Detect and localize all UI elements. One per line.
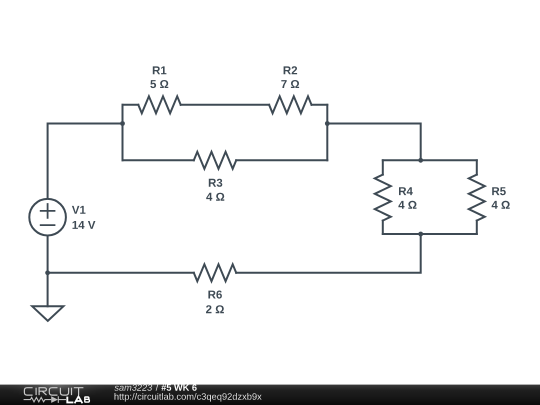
wire between R1 and R2 (181, 104, 269, 106)
CircuitLab logo diode symbol (51, 396, 58, 403)
resistor R2 (269, 96, 311, 113)
wire R4 bottom lead (382, 221, 384, 234)
node D junction dot (418, 232, 423, 237)
R6 name label (208, 291, 222, 299)
R3 name label (209, 179, 223, 187)
footer black bar background (0, 385, 540, 405)
resistor R5 (469, 175, 485, 221)
resistor R1 (138, 96, 180, 113)
wire R3 branch right segment (236, 159, 327, 161)
footer bar logo glow highlight (0, 365, 132, 405)
wire from R2 to right column (312, 104, 328, 106)
wire R4 top lead (382, 160, 384, 174)
wire left column joining top branch and R3 branch (122, 105, 124, 161)
wire R3 branch left segment (123, 159, 194, 161)
R4 name label (399, 187, 413, 195)
voltage source V1 (29, 199, 66, 236)
wire from R6 to ground node E (48, 272, 194, 274)
wire V1 minus terminal down to node E (47, 236, 49, 273)
footer credit line 2: circuitlab URL (115, 393, 262, 402)
wire from node B right and down to node C (327, 124, 420, 161)
CircuitLab logo wordmark LAB (67, 396, 89, 403)
R1 value label (150, 80, 168, 88)
resistor R4 (375, 175, 391, 221)
R4 value label (398, 201, 416, 209)
resistor R6 (194, 264, 236, 281)
wire from V1 plus terminal up and right to node A (48, 124, 123, 199)
wire right column joining top branch, node B and R3 branch (326, 105, 328, 161)
footer bar (0, 385, 540, 405)
CircuitLab logo wordmark CIRCUIT (24, 388, 83, 395)
V1 name label (72, 206, 86, 214)
node E junction dot (45, 270, 50, 275)
node B junction dot (325, 121, 330, 126)
resistor R3 (194, 152, 236, 169)
wire top rail of R4/R5 parallel pair (383, 159, 477, 161)
ground (32, 306, 63, 321)
R5 value label (492, 201, 510, 209)
R3 value label (206, 193, 224, 201)
wire R5 bottom lead (476, 221, 478, 234)
wire from node D down and left to R6 (236, 234, 421, 273)
node A junction dot (120, 121, 125, 126)
V1 value label (73, 221, 96, 229)
wire node E down to ground symbol (47, 273, 49, 307)
R2 value label (281, 80, 299, 88)
wire top branch: node A column to R1 (123, 104, 139, 106)
R6 value label (206, 305, 224, 313)
R2 name label (284, 66, 298, 74)
node C junction dot (418, 158, 423, 163)
footer credit line 1: sam3223 / #5 WK 6 (114, 384, 196, 391)
wire R5 top lead (476, 160, 478, 174)
wire bottom rail of R4/R5 parallel pair (383, 233, 477, 235)
CircuitLab logo resistor squiggle (24, 396, 66, 403)
R5 name label (492, 187, 506, 195)
R1 name label (153, 66, 167, 74)
